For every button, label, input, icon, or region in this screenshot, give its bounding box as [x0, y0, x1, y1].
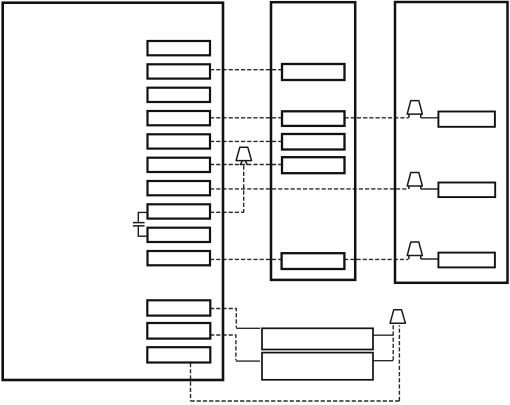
- box left unit: [3, 3, 223, 380]
- block L6: [148, 158, 211, 172]
- bell B0: [236, 147, 251, 165]
- wire S1 right solid: [373, 334, 393, 336]
- block L10: [148, 251, 211, 265]
- block L9: [148, 228, 211, 242]
- bell U2: [407, 173, 422, 190]
- wire L4 to M2: [210, 117, 282, 119]
- wire L7 to bell U2: [210, 188, 408, 190]
- wire S2 right solid: [373, 360, 393, 362]
- wire M2 to bell U1: [345, 117, 409, 119]
- block L5: [148, 134, 211, 148]
- capacitor C1 plates: [133, 223, 145, 226]
- wire L6 to M4: [210, 164, 282, 166]
- block S1: [262, 328, 373, 349]
- block B3: [147, 347, 210, 362]
- wire bottom rail: [191, 400, 400, 402]
- wire L8 to bell B0: [210, 211, 244, 213]
- wire bell U2 to R2: [421, 188, 439, 190]
- wire S1 left solid: [236, 327, 260, 329]
- bell U3: [407, 242, 422, 259]
- block B2: [147, 323, 210, 339]
- wire B2 to S2: [210, 335, 236, 360]
- wire L10 to M5: [210, 258, 282, 260]
- wire bell U3 to R3: [421, 258, 439, 260]
- block R1: [438, 112, 495, 127]
- bell U4: [390, 310, 405, 324]
- wire bell U4 to S1 S2: [392, 325, 394, 361]
- wire B3 drop: [190, 363, 192, 401]
- wire L2 to M1: [210, 69, 282, 71]
- block L4: [148, 111, 211, 125]
- block M1: [282, 64, 345, 80]
- wire B1 to S1: [210, 309, 236, 328]
- block M5: [282, 253, 345, 269]
- block L3: [148, 88, 211, 102]
- wire M5 to bell U3: [344, 258, 408, 260]
- block L7: [148, 181, 211, 195]
- block L1: [148, 41, 211, 55]
- block R2: [438, 183, 495, 198]
- block L2: [148, 64, 211, 78]
- capacitor C1 bottom lead: [138, 227, 148, 237]
- block R3: [438, 253, 495, 268]
- block L8: [148, 204, 211, 218]
- wire bell U4 riser: [398, 325, 400, 401]
- block M3: [282, 134, 345, 150]
- wire S2 left solid: [236, 360, 260, 362]
- box right unit: [395, 2, 508, 283]
- block B1: [147, 300, 210, 315]
- capacitor C1 top lead: [138, 212, 148, 221]
- block S2: [262, 353, 373, 380]
- wire bell U1 to R1: [421, 117, 439, 119]
- block M4: [282, 157, 345, 173]
- block M2: [282, 111, 345, 126]
- bell U1: [407, 101, 422, 118]
- wire vertical bell B0 drop: [243, 166, 245, 213]
- wire L5 to M3: [210, 140, 282, 142]
- box middle unit: [271, 2, 355, 280]
